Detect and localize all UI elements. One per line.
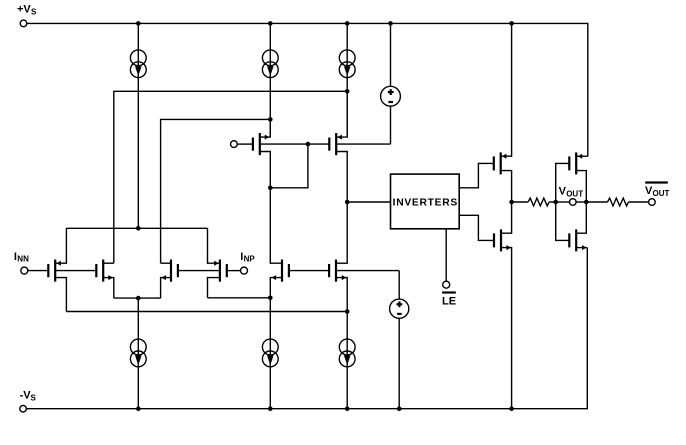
wire T4 source to M7 source node <box>208 297 271 299</box>
node bottom rail junction x512 <box>509 406 514 411</box>
wire +Vs top rail <box>27 23 588 156</box>
node junction x556 y202 <box>553 200 558 205</box>
svg-text:S: S <box>31 8 37 17</box>
current source I1 top left <box>130 23 146 228</box>
transistor T1 (input left) <box>48 228 96 311</box>
node top rail junction x270 <box>268 21 273 26</box>
terminal Inp <box>241 267 248 274</box>
wire -Vs bottom rail <box>27 248 588 409</box>
terminal Inn <box>21 267 28 274</box>
svg-text:+V: +V <box>17 4 31 16</box>
node junction x347 y202 <box>345 200 350 205</box>
node junction x138 y298 <box>136 296 141 301</box>
transistor M5 (gate terminal input, upper middle) <box>231 119 330 187</box>
node junction x270 y119 <box>268 117 273 122</box>
transistor T2 (input inner left) <box>96 260 114 299</box>
svg-text:S: S <box>31 394 37 403</box>
transistor T4 (input right) <box>208 228 227 297</box>
svg-text:INVERTERS: INVERTERS <box>393 198 458 209</box>
label -Vs <box>20 390 37 403</box>
terminal LE <box>443 281 450 288</box>
current source I6 bottom right <box>339 312 355 409</box>
terminal Vout-bar <box>649 199 656 206</box>
wire Vout node segments <box>556 201 587 203</box>
wire Inn to T1 gate <box>28 270 48 272</box>
svg-text:NN: NN <box>17 255 29 264</box>
voltage source B1 top <box>381 23 401 144</box>
node bottom rail junction x399 <box>397 406 402 411</box>
wire T3 drain to x270 node <box>161 119 271 263</box>
transistor M8 (latch pair right) <box>329 202 399 312</box>
node junction x270 y188 <box>268 186 273 191</box>
resistor R2 <box>586 198 648 206</box>
current source I4 bottom left <box>130 298 146 409</box>
current source I2 top middle <box>262 23 278 137</box>
wire INVERTERS latch enable stub <box>445 229 447 281</box>
node top rail junction x138 <box>136 21 141 26</box>
node junction x586 y202 <box>584 200 589 205</box>
label Vout <box>559 185 584 198</box>
label Inp <box>240 251 255 264</box>
svg-text:LE: LE <box>442 296 456 308</box>
node junction x270 y298 <box>268 296 273 301</box>
transistor Q1 output pair1 PMOS <box>494 23 512 202</box>
wire T2 drain to x347 node <box>114 91 347 263</box>
svg-text:OUT: OUT <box>653 189 670 198</box>
svg-text:NP: NP <box>244 255 256 264</box>
terminal -Vs <box>20 405 27 412</box>
wire M5 body loop to source node <box>270 144 308 188</box>
node junction x347 y311 <box>345 309 350 314</box>
node junction x138 y228 <box>136 226 141 231</box>
transistor Q4 output pair2 NMOS <box>556 202 588 251</box>
wire T1 M8 outer source bus <box>66 311 347 313</box>
transistor T3 (input inner right) <box>161 260 220 299</box>
terminal Vout <box>570 199 577 206</box>
wire T2 T3 common source <box>114 297 161 299</box>
transistor M7 (latch pair left) <box>270 188 329 298</box>
label Vout-bar with overline <box>645 183 670 198</box>
wire node to INVERTERS input <box>347 201 390 203</box>
node junction M5 body x308 <box>306 142 311 147</box>
box INVERTERS <box>391 174 460 229</box>
current source I3 top right <box>339 23 355 137</box>
svg-text:-V: -V <box>20 390 32 402</box>
label +Vs <box>17 4 37 17</box>
node junction x512 y202 <box>509 200 514 205</box>
transistor Q3 output pair2 PMOS <box>556 152 588 202</box>
wire input top interconnect T1-T4 <box>66 227 207 229</box>
node bottom rail junction x347 <box>345 406 350 411</box>
node bottom rail junction x138 <box>136 406 141 411</box>
node bottom rail junction x270 <box>268 406 273 411</box>
svg-text:OUT: OUT <box>566 189 583 198</box>
wire T4 gate to Inp <box>227 270 241 272</box>
label Inn <box>14 251 29 264</box>
terminal +Vs <box>20 20 27 27</box>
node junction x347 y91 <box>345 89 350 94</box>
wire INVERTERS lower output to pair1 NMOS gate <box>459 215 494 240</box>
current source I5 bottom middle <box>262 298 278 409</box>
wire INVERTERS upper output to pair1 PMOS gate <box>459 163 494 187</box>
node top rail junction x347 <box>345 21 350 26</box>
transistor Q2 output pair1 NMOS <box>494 202 512 409</box>
transistor M6 (upper middle right) <box>329 91 390 202</box>
label LE with overline <box>442 293 456 308</box>
voltage source B2 bottom <box>390 271 409 409</box>
resistor R1 <box>512 198 556 206</box>
node top rail junction x390 <box>388 21 393 26</box>
node top rail junction x512 <box>509 21 514 26</box>
